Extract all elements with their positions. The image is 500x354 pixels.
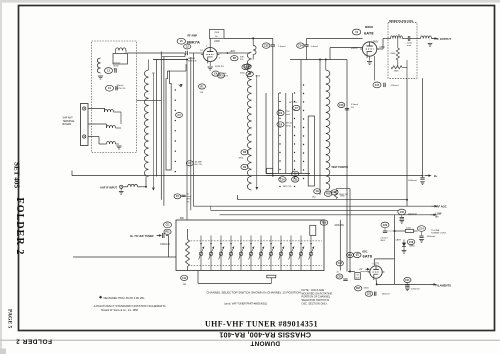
b+ to uhf tuner tap	[130, 233, 168, 257]
svg-text:C17: C17	[375, 85, 380, 87]
note measured voltages	[99, 296, 145, 300]
label 50K	[180, 217, 185, 220]
osc section label R8	[239, 150, 249, 160]
balun coil L1A	[116, 48, 127, 54]
osc designation	[353, 251, 372, 259]
svg-text:C25: C25	[293, 179, 298, 181]
svg-text:UHF-VHF TUNER #89014351: UHF-VHF TUNER #89014351	[205, 319, 318, 328]
mid contact dots A	[279, 92, 280, 187]
svg-text:470mmf: 470mmf	[391, 85, 399, 87]
rf strip pointer	[179, 84, 183, 87]
svg-text:C11: C11	[165, 225, 170, 227]
if output arrow	[432, 37, 452, 41]
capacitor C12	[181, 275, 188, 286]
svg-text:R16: R16	[322, 223, 327, 225]
svg-text:R11: R11	[165, 232, 170, 234]
strip1 oval C3A	[176, 113, 183, 118]
strip platform	[266, 168, 310, 175]
svg-text:CATH: CATH	[395, 239, 401, 242]
osc tuning arm	[255, 75, 258, 190]
wire x292.4	[291, 93, 293, 174]
ground uhf input	[119, 188, 124, 194]
wire x285.8	[285, 93, 287, 174]
svg-text:N750: N750	[286, 125, 292, 127]
capacitor C4	[212, 71, 229, 78]
svg-text:1000mmf: 1000mmf	[427, 236, 436, 238]
svg-text:C14: C14	[419, 227, 424, 230]
svg-text:OSC. SECTION ONLY.: OSC. SECTION ONLY.	[302, 301, 328, 305]
label +117V osc	[372, 263, 379, 266]
bus y206 rf agc	[194, 205, 447, 209]
vertical wire x193.4	[192, 53, 194, 206]
resistor R11	[164, 229, 171, 234]
mixer grid wire	[330, 48, 362, 60]
osc strip coil L8	[326, 60, 330, 190]
trimmer C6	[277, 110, 290, 116]
capacitor C11	[164, 222, 172, 228]
if output coil	[417, 36, 432, 39]
svg-text:C24: C24	[280, 178, 285, 181]
rf strip contacts	[175, 89, 176, 172]
label vhf ant terminal board	[63, 117, 76, 127]
bus y214.8 low b+	[220, 212, 442, 218]
svg-text:Limit: Limit	[187, 195, 192, 198]
rf strip coil L3	[144, 60, 148, 177]
wire board to coil 1	[88, 109, 105, 113]
capacitor C25	[292, 177, 299, 182]
ground balun left	[98, 76, 103, 79]
caption vhf tuner part number	[224, 303, 267, 306]
resistor R14	[346, 252, 361, 257]
label -2V	[359, 268, 370, 271]
capacitor C16	[338, 102, 359, 110]
coil L2A	[105, 108, 114, 112]
svg-text:C15: C15	[400, 212, 405, 214]
osc strip contact board	[308, 116, 314, 186]
coupling capacitor	[403, 36, 418, 47]
uhf if input terminal	[100, 185, 123, 189]
bus osc top (y59.5)	[153, 59, 347, 61]
osc strip contacts	[303, 84, 304, 179]
label +240V mixer	[371, 40, 378, 43]
svg-text:47mmf: 47mmf	[114, 63, 121, 65]
capacitor C8	[292, 171, 299, 176]
svg-text:450mmf: 450mmf	[382, 294, 390, 296]
bottom label FOLDER 2 (inverted)	[16, 337, 52, 344]
svg-text:mmf: mmf	[407, 45, 411, 47]
rf strip tuning arm	[152, 73, 155, 191]
title CHASSIS RA-400, RA-401 (inverted)	[219, 331, 311, 340]
svg-text:39mmf: 39mmf	[117, 85, 124, 87]
svg-text:1500mmf: 1500mmf	[160, 244, 170, 246]
capacitor C13	[336, 261, 343, 266]
capacitor C10A	[331, 190, 346, 198]
rf amp pin labels	[200, 46, 221, 60]
coil L2C	[107, 141, 116, 144]
osc grid box	[355, 273, 361, 280]
svg-text:5%: 5%	[187, 201, 190, 203]
svg-text:6800: 6800	[364, 287, 370, 289]
selector bottom wire	[198, 271, 272, 284]
osc top oval	[240, 64, 249, 74]
rf amp tube V1A	[201, 48, 219, 64]
vertical drop x272.8	[272, 38, 274, 175]
svg-text:FILAMENTS: FILAMENTS	[436, 284, 452, 288]
vertical wire x190.8	[190, 57, 192, 210]
osc section label R9	[241, 164, 248, 169]
osc tube V1C	[368, 266, 385, 280]
bus y199.7	[238, 195, 407, 200]
svg-text:CHASSIS RA-400, RA-401: CHASSIS RA-400, RA-401	[219, 331, 311, 340]
capacitor C23	[263, 43, 286, 48]
wire grid left	[128, 52, 204, 54]
rf amp designation	[177, 35, 200, 45]
svg-text:1.4mmf: 1.4mmf	[311, 46, 319, 48]
svg-text:6AT8: 6AT8	[364, 31, 374, 36]
svg-text:12K: 12K	[200, 92, 204, 94]
rf strip contact board	[166, 71, 171, 170]
ground rf amp	[208, 62, 213, 71]
svg-text:C16: C16	[339, 105, 344, 107]
oval C19	[407, 239, 415, 247]
label +240V	[214, 40, 220, 43]
capacitor C24A	[279, 177, 286, 182]
svg-text:5%: 5%	[240, 59, 243, 61]
svg-text:C13: C13	[338, 263, 343, 265]
svg-text:1B 4MF: 1B 4MF	[188, 58, 196, 60]
uhf if input coil	[123, 177, 146, 187]
ground mixer	[367, 56, 372, 64]
svg-text:MIXER PLATE COIL: MIXER PLATE COIL	[389, 19, 414, 23]
capacitor C14A	[418, 226, 447, 235]
title UHF-VHF TUNER #89014351	[205, 319, 318, 328]
capacitor C21	[404, 277, 420, 290]
svg-text:1000mmf: 1000mmf	[408, 180, 417, 182]
side label PAGE 5	[6, 309, 12, 329]
resistor R4	[244, 64, 251, 69]
capacitor C9A	[312, 189, 321, 199]
capacitor C1B	[106, 85, 118, 91]
svg-text:BOARD: BOARD	[63, 123, 72, 126]
test point	[331, 166, 348, 169]
svg-text:mmf: mmf	[286, 114, 290, 116]
vertical x394.5	[394, 215, 396, 285]
small parts top right of note	[336, 272, 348, 281]
capacitor C2	[184, 44, 191, 55]
wire mixer box drop	[406, 78, 408, 206]
svg-text:C23: C23	[264, 46, 269, 48]
plate coil winding	[391, 35, 403, 39]
diode fine tuning	[402, 240, 407, 254]
wire x278.4	[277, 93, 279, 174]
svg-text:C26: C26	[337, 276, 342, 278]
osc plate wire	[374, 259, 394, 265]
capacitor C24	[297, 38, 318, 59]
svg-text:180K 1W: 180K 1W	[339, 194, 349, 196]
selector wiper resistor	[186, 229, 190, 271]
capacitor C22	[365, 291, 390, 296]
svg-text:240V: 240V	[214, 40, 220, 43]
svg-text:(prod. VHF TUNER PART #8901435: (prod. VHF TUNER PART #89014351)	[224, 303, 267, 306]
svg-text:B+: B+	[434, 174, 438, 178]
photofact credit line	[94, 304, 167, 312]
wire board to coil 3	[88, 137, 107, 145]
svg-text:1.4mmf: 1.4mmf	[278, 46, 286, 48]
wire x266	[265, 93, 267, 174]
measurement box 240V	[210, 30, 225, 39]
wire x301	[300, 60, 302, 174]
label npo	[283, 186, 292, 188]
wire top bus small	[153, 59, 187, 61]
svg-text:RF AMP: RF AMP	[188, 35, 198, 38]
selector right wire	[339, 220, 341, 271]
svg-text:B+: B+	[436, 215, 440, 218]
svg-text:C22: C22	[367, 294, 372, 296]
rf strip wire pair	[161, 52, 164, 206]
resistor R3	[231, 56, 245, 62]
svg-text:Howard W. Sams & Co., Inc. 195: Howard W. Sams & Co., Inc. 1958	[101, 309, 139, 312]
svg-text:C24: C24	[298, 45, 303, 48]
terminal board lug 1	[83, 107, 86, 110]
resistor R13 above selector	[324, 190, 348, 199]
antenna terminal board	[81, 104, 89, 146]
caption channel selector position	[206, 290, 300, 294]
plate load coil L5	[238, 38, 257, 59]
wire x347	[346, 60, 348, 272]
svg-text:5%: 5%	[351, 107, 354, 109]
wire coil mid	[88, 124, 107, 128]
capacitor C3	[186, 161, 202, 167]
vertical x350	[336, 189, 350, 272]
side label SET 405	[13, 162, 21, 188]
balun dashed box	[92, 41, 137, 153]
svg-text:N750 5%: N750 5%	[117, 88, 126, 90]
svg-text:180K: 180K	[394, 71, 400, 73]
svg-text:450V: 450V	[380, 240, 386, 242]
svg-text:NPO 5%: NPO 5%	[283, 186, 292, 188]
label mixer plate coil	[389, 19, 414, 23]
svg-text:FOLDER 2: FOLDER 2	[14, 198, 25, 256]
svg-text:1000mmf: 1000mmf	[408, 213, 418, 215]
resistor 180K bottom	[391, 60, 407, 78]
svg-text:6AB4: 6AB4	[409, 245, 415, 248]
vertical wire x187	[186, 60, 188, 221]
svg-text:50K: 50K	[180, 217, 185, 220]
mixer cathode drop	[374, 56, 376, 81]
selector dashed row bottom	[191, 265, 322, 267]
wire fine tuning h	[385, 230, 418, 232]
filament bus	[377, 283, 451, 288]
capacitor C17	[373, 82, 399, 88]
svg-text:A PHOTOFACT STANDARD NOTATI: A PHOTOFACT STANDARD NOTATION SCHEMATIC	[94, 304, 167, 308]
svg-text:R14: R14	[348, 254, 353, 257]
capacitor C14A cap	[419, 231, 435, 242]
svg-text:C19: C19	[409, 242, 414, 244]
label 135V mixer	[379, 46, 385, 49]
osc grid wire	[348, 271, 369, 273]
capacitor C1A	[105, 68, 117, 74]
wire plate right	[217, 52, 237, 54]
coil L2B	[107, 125, 116, 128]
svg-text:RF AGC: RF AGC	[437, 205, 447, 209]
svg-text:C12: C12	[182, 278, 187, 280]
svg-text:1000mmf: 1000mmf	[411, 288, 420, 290]
wire balun internal	[114, 112, 122, 128]
svg-text:R13: R13	[326, 194, 331, 196]
svg-text:N750 5%: N750 5%	[215, 66, 224, 68]
selector bottom cap	[267, 275, 276, 283]
capacitor C15	[398, 209, 417, 223]
svg-text:+240V: +240V	[371, 40, 378, 43]
b+ terminal right	[408, 174, 438, 185]
svg-text:6AT8: 6AT8	[363, 253, 373, 258]
selector outer box	[176, 220, 324, 271]
note coils mounting	[302, 288, 333, 305]
svg-text:5%: 5%	[114, 68, 117, 70]
svg-text:FOLDER 2: FOLDER 2	[16, 337, 52, 344]
osc cathode drop	[375, 279, 378, 285]
svg-text:C20: C20	[383, 225, 388, 227]
ground balun bottom	[116, 144, 122, 149]
bus wire B+ upper (y176)	[72, 171, 423, 176]
svg-text:C21: C21	[405, 280, 410, 282]
bus wire B+ to tuner (y257)	[73, 256, 176, 258]
label +117V mixer	[351, 47, 358, 50]
svg-text:TEST POINT: TEST POINT	[331, 166, 346, 169]
wire if drop x422.5	[422, 78, 424, 175]
svg-text:6BK7A: 6BK7A	[187, 39, 200, 44]
svg-text:CHANNEL SELECTOR SWITCH SHOWN: CHANNEL SELECTOR SWITCH SHOWN IN CHANNEL…	[206, 290, 300, 294]
svg-text:330K: 330K	[390, 53, 396, 55]
svg-text:+90V: +90V	[230, 50, 236, 53]
strip1 top link	[162, 53, 186, 71]
svg-text:7008: 7008	[214, 32, 220, 34]
svg-text:MIXER: MIXER	[365, 26, 373, 29]
selector dashed row top	[191, 240, 322, 242]
svg-text:MEASURED THRU JW PD 4-DF VBL.: MEASURED THRU JW PD 4-DF VBL.	[104, 297, 146, 300]
label cath	[395, 239, 401, 242]
svg-text:3.3mmf: 3.3mmf	[351, 104, 359, 106]
label 39mmf N750	[117, 85, 126, 90]
svg-text:TUNING CONT.: TUNING CONT.	[431, 233, 447, 235]
coil L1B	[97, 58, 100, 73]
bus B+ top (y38.4)	[224, 37, 362, 39]
wire tube to box	[209, 38, 211, 47]
trimmer C6B	[277, 122, 293, 128]
title DUMONT (inverted)	[250, 340, 280, 347]
svg-text:1B 4MF: 1B 4MF	[195, 162, 203, 164]
svg-text:UHF IF INPUT: UHF IF INPUT	[100, 185, 117, 189]
mid contact dots B	[294, 92, 295, 187]
resistor R1	[199, 84, 206, 94]
capacitor C7	[289, 102, 300, 111]
capacitor C20	[380, 222, 389, 242]
svg-text:PAGE 5: PAGE 5	[6, 309, 12, 329]
svg-text:R17: R17	[356, 288, 361, 290]
resistor 330K	[390, 39, 399, 61]
resistor R17	[355, 286, 370, 291]
label c2 value	[188, 58, 197, 63]
svg-text:N/C ON: N/C ON	[195, 164, 203, 166]
mixer tube V1B	[360, 42, 379, 58]
svg-text:+117V: +117V	[372, 263, 379, 266]
mixer plate wire	[377, 39, 391, 50]
svg-text:SET 405: SET 405	[13, 162, 21, 188]
balun output wire	[137, 100, 162, 102]
capacitor C5	[174, 194, 191, 204]
svg-text:+90V: +90V	[356, 253, 362, 255]
label 1500mmf	[160, 244, 170, 246]
terminal board lug 2	[83, 135, 86, 138]
rf strip wire a	[155, 60, 157, 177]
resistor 1000	[406, 228, 414, 233]
svg-text:-2V: -2V	[359, 269, 363, 271]
side label FOLDER 2 (vertical)	[14, 198, 25, 256]
svg-text:IF OUTPUT: IF OUTPUT	[437, 37, 452, 41]
osc coil L7	[247, 52, 251, 190]
svg-text:B+ TO UHF TUNER: B+ TO UHF TUNER	[130, 234, 153, 238]
junction +90V	[227, 50, 236, 54]
resistor R2	[218, 73, 225, 78]
svg-text:39mmf: 39mmf	[286, 123, 293, 125]
resistor R16	[320, 220, 344, 227]
svg-text:NPO 5%: NPO 5%	[289, 102, 297, 104]
label N750	[215, 66, 224, 68]
svg-text:63K: 63K	[240, 57, 244, 59]
bus y210.3	[211, 206, 398, 211]
svg-text:DUMONT: DUMONT	[250, 340, 280, 347]
selector switch contacts	[199, 236, 315, 271]
svg-text:160K 2W: 160K 2W	[334, 225, 344, 227]
svg-text:N750: N750	[114, 65, 120, 67]
ground if output	[428, 39, 433, 47]
balun winding box	[113, 54, 128, 65]
label 47mmf NPO	[114, 63, 121, 71]
resistor R7	[246, 71, 261, 77]
svg-text:N/CK ON: N/CK ON	[188, 61, 197, 63]
wire x320	[319, 60, 321, 196]
mixer designation	[352, 26, 374, 35]
mixer plate coil box	[388, 23, 417, 79]
selector resistor box	[310, 225, 316, 235]
